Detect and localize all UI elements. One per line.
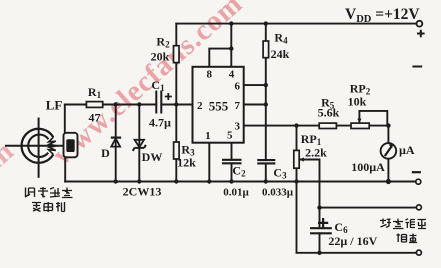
wire R3 branch: [175, 105, 177, 182]
wire RP1 branch: [296, 126, 298, 182]
svg-text:20k: 20k: [151, 50, 170, 64]
svg-text:5: 5: [227, 129, 233, 141]
wire sensor top lead: [64, 105, 66, 133]
wire input row pin2: [65, 104, 193, 106]
op-amp U1 555 timer box: [193, 67, 244, 143]
terminal + VDD: [417, 21, 423, 27]
capacitor C3: [257, 160, 275, 163]
label speed signal output (chinese): [380, 219, 426, 229]
wire pin7 stub: [244, 104, 266, 106]
wire zener DW branch: [138, 105, 140, 182]
wire pin1 to ground: [208, 143, 210, 182]
minus sign at meter terminal: [412, 171, 421, 173]
potentiometer RP2: [351, 123, 369, 128]
wire R4 C3 timing branch: [265, 24, 267, 182]
svg-text:D: D: [101, 146, 110, 160]
pulse tacho generator LF: [5, 118, 74, 178]
svg-text:4.7µ: 4.7µ: [149, 116, 171, 130]
svg-text:2CW13: 2CW13: [123, 185, 162, 199]
node junction dots: [114, 21, 392, 255]
svg-text:0.01µ: 0.01µ: [223, 186, 249, 198]
svg-text:555: 555: [209, 99, 229, 114]
wire pin3 output row: [244, 125, 389, 127]
wire pin5 C2 branch: [231, 143, 233, 182]
svg-text:2: 2: [197, 100, 203, 112]
terminal meter minus: [416, 179, 421, 184]
minus sign upper: [412, 66, 422, 68]
terminal signal output: [416, 205, 421, 210]
svg-text:3: 3: [235, 120, 241, 132]
svg-text:0.033µ: 0.033µ: [262, 187, 294, 199]
svg-text:5.6k: 5.6k: [318, 106, 340, 120]
svg-text:DW: DW: [142, 150, 163, 164]
svg-text:12k: 12k: [177, 156, 196, 170]
resistor R2: [174, 46, 180, 63]
terminal output ground: [416, 250, 421, 255]
svg-text:µA: µA: [399, 143, 415, 157]
capacitor C2: [222, 160, 242, 164]
svg-text:7: 7: [235, 100, 241, 112]
svg-text:1: 1: [205, 130, 211, 142]
wire sensor bottom lead: [64, 157, 66, 181]
svg-text:10k: 10k: [348, 95, 367, 109]
watermark: [0, 0, 249, 268]
resistor R3: [174, 142, 180, 159]
wire ground rail: [65, 180, 416, 182]
wire R2 branch vertical: [175, 24, 177, 105]
potentiometer RP1: [294, 150, 299, 168]
wire output row: [320, 207, 416, 209]
resistor R1: [86, 102, 102, 108]
svg-text:2.2k: 2.2k: [305, 146, 327, 160]
resistor R5: [319, 123, 336, 128]
wire RP1 lower lead to bottom rail: [297, 182, 416, 253]
svg-text:6: 6: [235, 80, 241, 92]
svg-text:22µ / 16V: 22µ / 16V: [328, 234, 377, 248]
svg-text:8: 8: [207, 69, 213, 81]
svg-text:47: 47: [89, 111, 101, 125]
resistor R4: [263, 41, 269, 58]
wire RP2 wiper loop: [359, 111, 387, 126]
wire meter branch: [387, 126, 389, 182]
svg-text:LF: LF: [46, 98, 63, 113]
wire RP1 wiper lead: [299, 160, 319, 253]
capacitor C6 electrolytic: [310, 227, 332, 229]
capacitor C1: [156, 91, 161, 114]
label pulse tacho generator (chinese): [25, 187, 73, 198]
diode D: [111, 138, 121, 147]
zener diode DW: [133, 140, 146, 151]
wire 555 pins 8-4 bracket: [209, 24, 231, 67]
svg-text:24k: 24k: [271, 47, 290, 61]
wire pin6 stub: [244, 84, 266, 86]
plus sign terminal: [417, 30, 425, 38]
wire diode D branch: [115, 105, 117, 182]
wire VDD top rail: [176, 23, 416, 25]
svg-text:100µA: 100µA: [351, 160, 385, 174]
meter uA: [381, 143, 397, 159]
svg-text:4: 4: [229, 69, 235, 81]
